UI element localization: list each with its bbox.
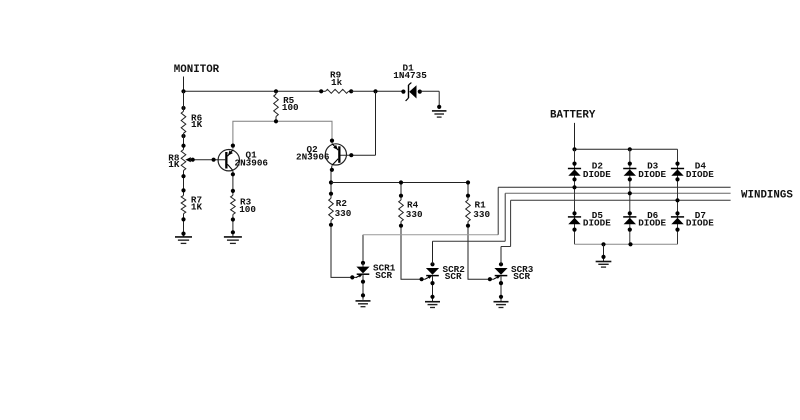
wire monitor stub bbox=[183, 77, 185, 92]
wire Q1 collector riser + node to R5 bottom + Q2 top (gray wire) bbox=[231, 121, 334, 150]
diode D3 bbox=[623, 160, 666, 180]
wire Q1 emitter to R3 bbox=[231, 171, 235, 196]
transistor Q1 bbox=[218, 149, 268, 171]
wire winding bus 3 bbox=[511, 199, 731, 201]
diode D5 bbox=[568, 210, 611, 229]
resistor R9 bbox=[319, 70, 353, 94]
svg-text:DIODE: DIODE bbox=[686, 218, 714, 229]
svg-text:100: 100 bbox=[239, 204, 256, 215]
resistor R4 bbox=[399, 199, 423, 221]
wire winding bus 1 bbox=[498, 186, 730, 188]
ground under SCR1 bbox=[356, 301, 371, 307]
ground under R7 bbox=[175, 237, 192, 244]
wire Q2 base to top rail bbox=[341, 91, 376, 157]
svg-text:330: 330 bbox=[406, 209, 423, 220]
wire left column upper bbox=[183, 91, 185, 111]
diode D7 bbox=[671, 210, 714, 229]
diode D2 bbox=[568, 160, 611, 180]
ground under SCR3 bbox=[494, 302, 509, 308]
ground at bridge bbox=[596, 262, 612, 268]
wire R8 to R7 bbox=[181, 171, 185, 196]
resistor R6 bbox=[181, 111, 202, 133]
wire R7 to ground bbox=[181, 214, 185, 237]
svg-text:DIODE: DIODE bbox=[583, 169, 611, 180]
wire bridge column D3/D6 bbox=[628, 149, 632, 244]
transistor Q2 bbox=[296, 144, 347, 165]
wire bridge column D4/D7 bbox=[675, 149, 679, 244]
svg-text:SCR: SCR bbox=[375, 270, 392, 281]
wire R6 to R8 bbox=[181, 133, 185, 149]
wire R3 to ground bbox=[231, 215, 235, 237]
wire rail R9 to D1 bbox=[351, 89, 403, 93]
wire SCR3 anode to bus3 bbox=[501, 200, 511, 264]
svg-text:1K: 1K bbox=[191, 201, 203, 212]
resistor R2 bbox=[329, 198, 352, 220]
svg-text:DIODE: DIODE bbox=[638, 169, 666, 180]
wire bridge ground stub bbox=[601, 244, 605, 261]
svg-text:1N4735: 1N4735 bbox=[393, 70, 427, 81]
resistor R5 bbox=[274, 91, 299, 123]
wire R4 column bbox=[399, 180, 426, 281]
svg-text:330: 330 bbox=[473, 209, 490, 220]
wire Q2 emitter down to gate rail and SCR1 gate bbox=[329, 165, 356, 279]
wire top rail left segment bbox=[181, 89, 321, 93]
ground at D1 bbox=[432, 111, 447, 117]
node BATTERY label bbox=[550, 110, 596, 122]
svg-text:WINDINGS: WINDINGS bbox=[741, 190, 793, 202]
resistor R7 bbox=[181, 195, 202, 214]
thyristor SCR1 bbox=[356, 261, 396, 300]
ground under R3 bbox=[224, 237, 242, 244]
wire bridge column D2/D5 bbox=[572, 149, 576, 244]
svg-text:2N3906: 2N3906 bbox=[235, 157, 269, 168]
junction monitor rail dots bbox=[181, 106, 185, 138]
ground under SCR2 bbox=[425, 302, 440, 308]
wire bridge top rail bbox=[572, 147, 677, 151]
diode D1 zener bbox=[393, 63, 427, 101]
diode D6 bbox=[623, 210, 666, 229]
wire R1 column bbox=[466, 180, 494, 281]
node WINDINGS label bbox=[741, 190, 793, 202]
resistor R8 (pot) bbox=[168, 150, 186, 171]
thyristor SCR2 bbox=[425, 262, 465, 301]
svg-text:1K: 1K bbox=[168, 159, 180, 170]
svg-text:DIODE: DIODE bbox=[638, 218, 666, 229]
svg-text:330: 330 bbox=[335, 208, 352, 219]
wire D1 to ground drop bbox=[420, 91, 441, 109]
wire gate bus rail bbox=[331, 182, 468, 184]
svg-text:BATTERY: BATTERY bbox=[550, 110, 596, 122]
svg-text:MONITOR: MONITOR bbox=[174, 64, 220, 76]
svg-text:2N3906: 2N3906 bbox=[296, 152, 330, 163]
svg-text:SCR: SCR bbox=[513, 271, 530, 282]
wire battery stub bbox=[574, 123, 576, 149]
svg-text:DIODE: DIODE bbox=[583, 218, 611, 229]
wiper arrow R8 bbox=[185, 157, 190, 162]
resistor R1 bbox=[466, 199, 491, 221]
svg-text:100: 100 bbox=[282, 102, 299, 113]
svg-text:1k: 1k bbox=[331, 77, 343, 88]
thyristor SCR3 bbox=[494, 262, 534, 301]
wire bridge bottom rail bbox=[575, 242, 678, 246]
resistor R3 bbox=[231, 195, 257, 215]
wire SCR1 anode to bus1 bbox=[363, 187, 498, 266]
wire SCR2 anode to bus2 bbox=[433, 193, 506, 264]
wire wiper to Q1 base bbox=[191, 158, 226, 162]
node MONITOR label bbox=[174, 64, 220, 76]
svg-text:DIODE: DIODE bbox=[686, 169, 714, 180]
wire winding bus 2 bbox=[505, 192, 730, 194]
svg-text:SCR: SCR bbox=[445, 271, 462, 282]
diode D4 bbox=[671, 160, 714, 180]
svg-text:1K: 1K bbox=[191, 119, 203, 130]
